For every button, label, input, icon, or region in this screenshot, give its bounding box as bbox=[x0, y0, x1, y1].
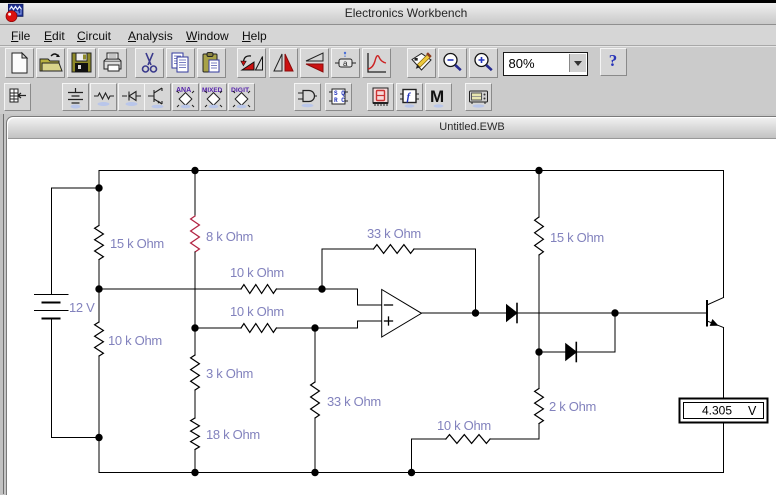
junction battery negative / left rail bbox=[95, 434, 102, 441]
wire R7 to node F bbox=[276, 327, 315, 329]
svg-text:R C: R C bbox=[334, 97, 345, 104]
wire node D to R7 bbox=[195, 327, 241, 329]
node H junction (D2 return / base wire) bbox=[611, 309, 618, 316]
wire R6 to node E bbox=[276, 288, 322, 290]
wire R9 bottom to bottom rail bbox=[314, 418, 316, 473]
diode D1 bbox=[507, 304, 518, 323]
resistor R4 3 k Ohm bbox=[191, 355, 200, 390]
wire left rail lower segment bbox=[98, 356, 100, 473]
resistor R7 10 k Ohm (non-inverting input) bbox=[241, 324, 276, 333]
svg-text:MIXED: MIXED bbox=[202, 87, 223, 94]
wire R10 bottom through cross to node I bbox=[538, 255, 540, 352]
diode D2 bbox=[566, 343, 577, 362]
node E junction (R6/feedback/inverting) bbox=[318, 285, 325, 292]
resistor R8 33 k Ohm (feedback) bbox=[374, 245, 415, 254]
wire R12 left lead down to bottom rail bbox=[412, 439, 446, 473]
wire D1 cathode to node H (crosses right rail) bbox=[517, 312, 615, 314]
wire node I to R11 bbox=[538, 352, 540, 389]
wire R1 bottom to node B bbox=[98, 260, 100, 323]
wire bottom rail bbox=[99, 472, 724, 474]
junction top rail / 8k branch bbox=[191, 167, 198, 174]
wire node H to transistor base bbox=[615, 312, 707, 314]
resistor R9 33 k Ohm (to ground rail) bbox=[311, 382, 320, 418]
resistor R3 8 k Ohm (red) bbox=[191, 216, 200, 252]
wire node I to diode D2 anode bbox=[539, 351, 566, 353]
battery V1 bbox=[35, 295, 68, 319]
node G junction (output/feedback) bbox=[472, 309, 479, 316]
wire collector to top rail bbox=[723, 171, 725, 298]
svg-text:a: a bbox=[343, 59, 348, 68]
resistor R5 18 k Ohm bbox=[191, 418, 200, 450]
resistor R12 10 k Ohm (bottom) bbox=[446, 435, 490, 444]
junction bottom rail / R5 bbox=[191, 469, 198, 476]
wire node F to op-amp non-inverting input bbox=[315, 321, 382, 328]
resistor R2 10 k Ohm bbox=[95, 322, 104, 356]
node F junction (R7/R9/non-inverting) bbox=[311, 324, 318, 331]
resistor R6 10 k Ohm (inverting input) bbox=[241, 285, 276, 294]
wire emitter to voltmeter bbox=[723, 328, 725, 399]
node A junction (battery / left rail) bbox=[95, 184, 102, 191]
junction top rail / right rail bbox=[535, 167, 542, 174]
wire left rail from node A to R1 bbox=[98, 188, 100, 226]
resistor R11 2 k Ohm bbox=[535, 389, 544, 424]
transistor Q1 bbox=[707, 298, 724, 328]
wire 8k bottom through cross to node D bbox=[194, 252, 196, 355]
wire node G to diode D1 anode bbox=[476, 312, 507, 314]
wire feedback left riser bbox=[322, 249, 374, 289]
wire R11 bottom to R12 right lead bbox=[490, 424, 539, 440]
junction bottom rail / R12 branch bbox=[408, 469, 415, 476]
voltmeter M1 bbox=[680, 399, 768, 423]
wire 8k branch top bbox=[194, 171, 196, 217]
wire battery positive to node A bbox=[52, 188, 100, 295]
wire right rail top to R10 bbox=[538, 171, 540, 218]
svg-text:M: M bbox=[430, 87, 444, 106]
wire op-amp output to node G bbox=[422, 312, 476, 314]
wire node B to R6 bbox=[99, 288, 241, 290]
node I junction (right rail / D2 anode) bbox=[535, 348, 542, 355]
wire node E to op-amp inverting input bbox=[322, 289, 382, 305]
resistor R10 15 k Ohm bbox=[535, 217, 544, 255]
wire voltmeter to bottom rail bbox=[723, 423, 725, 473]
wire left rail upper segment bbox=[98, 171, 100, 189]
node D junction (8k branch / R7) bbox=[191, 324, 198, 331]
junction bottom rail / R9 bbox=[311, 469, 318, 476]
wire battery negative down and right to left rail bbox=[52, 319, 100, 438]
wire top rail bbox=[99, 170, 724, 172]
resistor R1 15 k Ohm bbox=[95, 226, 104, 260]
wire feedback right drop to output node bbox=[414, 249, 476, 313]
node B junction (R1/R2/R6) bbox=[95, 285, 102, 292]
wire D2 cathode up to node H bbox=[576, 313, 615, 352]
op-amp U1 bbox=[382, 290, 422, 338]
svg-text:S Q: S Q bbox=[334, 90, 345, 97]
wire node F to R9 bbox=[314, 328, 316, 382]
wire R5 bottom to bottom rail bbox=[194, 450, 196, 473]
wire between R4 and R5 bbox=[194, 390, 196, 418]
